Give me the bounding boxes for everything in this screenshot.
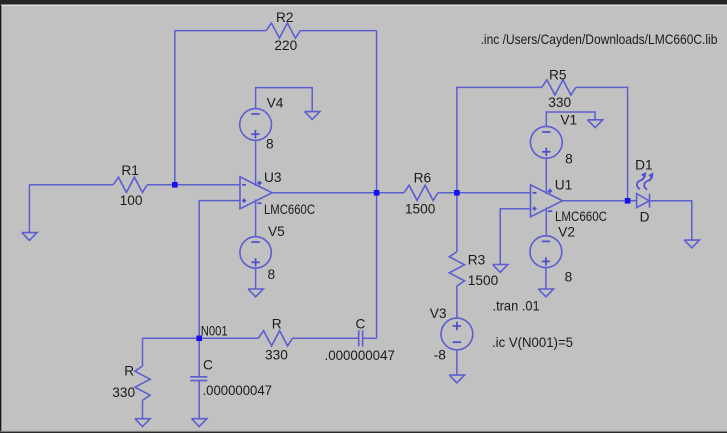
svg-text:V1: V1 xyxy=(560,113,577,128)
wire C to feedback corner xyxy=(363,337,377,339)
svg-text:V3: V3 xyxy=(430,306,447,321)
svg-text:U1: U1 xyxy=(555,178,573,193)
svg-text:N001: N001 xyxy=(201,324,228,339)
capacitor C (N001 to ground) xyxy=(190,377,207,381)
wire U3 V- pin to V5 xyxy=(255,199,257,236)
ground (U1 noninverting) xyxy=(493,265,508,273)
capacitor C (N001 row) xyxy=(359,330,363,346)
wire R6 to node B xyxy=(438,192,531,194)
svg-text:V4: V4 xyxy=(267,96,284,111)
wire V4 top to ground xyxy=(256,88,313,112)
ground (input) xyxy=(22,233,37,241)
svg-text:330: 330 xyxy=(548,95,571,110)
svg-text:R5: R5 xyxy=(549,68,567,83)
resistor R (left branch) xyxy=(135,366,150,400)
op-amp U3 xyxy=(240,177,272,209)
ground (V1) xyxy=(588,120,603,128)
svg-text:LMC660C: LMC660C xyxy=(264,202,315,217)
wire U1 output to diode xyxy=(563,200,637,202)
svg-text:8: 8 xyxy=(565,152,573,167)
wire left branch down to R xyxy=(142,338,144,366)
voltage source V1 xyxy=(530,126,562,158)
ground (V3) xyxy=(449,375,464,383)
svg-text:8: 8 xyxy=(266,137,274,152)
svg-text:100: 100 xyxy=(120,193,143,208)
svg-text:R: R xyxy=(272,317,282,332)
svg-text:U3: U3 xyxy=(264,170,282,185)
ground (mid C) xyxy=(192,419,207,427)
wire V3 to ground xyxy=(456,350,458,375)
svg-text:.000000047: .000000047 xyxy=(325,348,395,363)
svg-text:-8: -8 xyxy=(434,347,447,362)
wire feedback left vertical R2 xyxy=(174,31,176,185)
wire U3 noninverting input xyxy=(199,201,240,339)
diode D1 (LED) xyxy=(637,172,654,208)
wire diode cathode to right ground xyxy=(650,201,692,240)
wire C to ground xyxy=(198,381,200,419)
window bottom bar xyxy=(0,430,727,433)
wire R3 to V3 xyxy=(456,286,458,318)
svg-text:220: 220 xyxy=(274,38,297,53)
junction node N001 xyxy=(196,336,202,342)
voltage source V5 xyxy=(240,237,271,268)
svg-text:8: 8 xyxy=(268,267,276,282)
wire input left vertical to ground xyxy=(28,185,30,233)
ground (diode output) xyxy=(684,240,699,248)
svg-text:330: 330 xyxy=(265,347,288,362)
wire node B down to R3 xyxy=(456,193,458,252)
voltage source V4 xyxy=(240,109,272,141)
wire V2 to ground xyxy=(545,268,547,289)
svg-text:1500: 1500 xyxy=(405,201,436,216)
svg-text:1500: 1500 xyxy=(468,273,499,288)
wire R2 top left segment xyxy=(175,30,266,32)
wire R1 right lead to junction A xyxy=(147,184,240,186)
svg-text:.ic V(N001)=5: .ic V(N001)=5 xyxy=(492,335,573,350)
wire R2 top right segment xyxy=(300,30,376,32)
junction node B (R6/R3/R5) xyxy=(454,190,460,196)
svg-text:R3: R3 xyxy=(468,253,486,268)
svg-text:R1: R1 xyxy=(121,163,138,178)
resistor R3 xyxy=(449,252,464,286)
ground (left R) xyxy=(135,419,150,427)
svg-text:.inc /Users/Cayden/Downloads/L: .inc /Users/Cayden/Downloads/LMC660C.lib xyxy=(481,32,718,47)
wire V4 to U3 V+ pin xyxy=(255,140,257,186)
voltage source V2 xyxy=(530,236,562,268)
svg-text:R2: R2 xyxy=(276,10,294,25)
window top bar xyxy=(0,0,727,5)
wire N001 row left xyxy=(143,337,259,339)
ground (V4) xyxy=(305,112,320,120)
wire node B up to R5 xyxy=(457,87,542,192)
wire R5 right down to node C xyxy=(576,87,628,200)
wire V5 to ground xyxy=(255,268,257,289)
svg-text:R: R xyxy=(124,364,134,379)
svg-text:330: 330 xyxy=(112,385,135,400)
resistor R5 xyxy=(542,80,576,95)
svg-text:8: 8 xyxy=(565,270,573,285)
svg-text:D1: D1 xyxy=(635,158,653,173)
junction node A (R1/R2) xyxy=(172,182,178,188)
resistor R6 xyxy=(404,185,438,200)
wire V1 top to ground xyxy=(546,112,595,126)
svg-text:V2: V2 xyxy=(558,225,575,240)
wire V1 to U1 V+ pin xyxy=(545,158,547,194)
wire U1 noninverting input to ground xyxy=(500,209,530,265)
wire N001 row R to C xyxy=(292,337,358,339)
junction node C (U1 output/diode) xyxy=(625,198,631,204)
resistor R1 xyxy=(113,177,147,192)
window left edge xyxy=(0,5,1,433)
junction node U3 output xyxy=(374,190,380,196)
svg-text:.000000047: .000000047 xyxy=(203,383,273,398)
ground (V5) xyxy=(248,289,263,297)
voltage source V3 xyxy=(441,318,473,350)
wire U1 V- pin to V2 xyxy=(545,207,547,235)
resistor R (N001 row) xyxy=(258,331,292,346)
wire left R to ground xyxy=(142,400,144,418)
wire input left horizontal xyxy=(29,184,113,186)
wire N001 down to C xyxy=(198,338,200,377)
svg-text:.tran .01: .tran .01 xyxy=(493,299,540,314)
svg-text:LMC660C: LMC660C xyxy=(555,209,607,224)
ground (V2) xyxy=(538,289,553,297)
svg-text:C: C xyxy=(203,358,213,373)
wire feedback right vertical xyxy=(376,31,378,339)
resistor R2 xyxy=(266,23,300,38)
svg-text:C: C xyxy=(356,317,366,332)
wire U3 output to R6 xyxy=(272,192,404,194)
svg-text:D: D xyxy=(640,210,650,225)
op-amp U1 xyxy=(531,185,563,217)
svg-text:V5: V5 xyxy=(268,224,285,239)
svg-text:R6: R6 xyxy=(414,171,432,186)
